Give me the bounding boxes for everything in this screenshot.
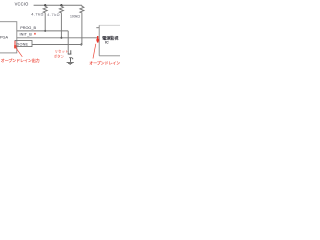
FPGA box U1 — [0, 22, 17, 53]
junction rail-R1 — [44, 4, 46, 6]
wire R1 to PROG_B — [44, 14, 46, 31]
wire DONE — [32, 44, 82, 46]
wire VCCIO top rail — [34, 4, 82, 6]
annotation red bar on IC edge — [97, 36, 99, 43]
pushbutton SW1 — [68, 50, 73, 62]
svg-text:100kΩ: 100kΩ — [70, 15, 80, 19]
svg-text:INIT_B: INIT_B — [20, 33, 33, 37]
wire INIT_B — [17, 37, 98, 39]
junction R3-DONE — [80, 44, 82, 46]
junction R2-INIT_B — [60, 37, 62, 39]
resistor R3 100k zigzag — [80, 5, 84, 13]
resistor R1 4.7k zigzag — [43, 5, 47, 13]
svg-text:PROG_B: PROG_B — [20, 26, 36, 30]
annotation red blob at DONE-IC connection — [96, 39, 99, 42]
junction rail-R2 — [60, 4, 62, 6]
svg-text:リセット: リセット — [54, 48, 68, 53]
svg-text:FPGA: FPGA — [0, 36, 9, 40]
wire R2 to INIT_B — [60, 14, 62, 38]
svg-text:VCCIO: VCCIO — [15, 2, 29, 7]
junction R1-PROG_B — [44, 30, 46, 32]
svg-text:IC: IC — [105, 40, 109, 44]
svg-text:DONE: DONE — [17, 42, 29, 46]
annotation red line bottom-left — [16, 48, 22, 57]
annotation red dash after INIT_B — [34, 33, 36, 35]
annotation red left edge of DONE box — [14, 41, 16, 47]
wire PROG_B corner down to button — [67, 31, 69, 54]
svg-text:4.7kΩ: 4.7kΩ — [47, 12, 60, 17]
ground — [67, 62, 74, 64]
svg-text:オープンドレイン出力: オープンドレイン出力 — [89, 60, 120, 66]
background — [0, 0, 120, 68]
svg-text:オープンドレイン出力: オープンドレイン出力 — [1, 57, 40, 63]
annotation red line bottom-right — [93, 44, 96, 59]
supervisor IC U2 box — [99, 24, 122, 26]
wire R3 to DONE — [81, 14, 83, 45]
resistor R2 4.7k zigzag — [59, 5, 63, 13]
svg-text:ボタン: ボタン — [54, 54, 65, 59]
svg-text:4.7kΩ: 4.7kΩ — [31, 12, 44, 17]
annotation red blob DONE corner — [14, 45, 16, 48]
DONE label box — [15, 41, 32, 47]
supervisor pin stub — [96, 27, 99, 29]
wire PROG_B — [17, 30, 68, 32]
